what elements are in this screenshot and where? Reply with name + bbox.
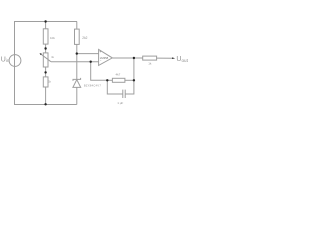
svg-text:+: + <box>99 50 101 54</box>
wire R6 bottom lead <box>45 87 47 105</box>
svg-text:1 µF: 1 µF <box>117 101 123 105</box>
zener diode D1 triangle <box>73 80 81 88</box>
svg-text:Uin: Uin <box>1 56 10 63</box>
wire R3 top lead <box>76 22 78 30</box>
voltage source U_in <box>9 55 21 67</box>
output arrowhead <box>172 57 175 59</box>
capacitor C1 right plate <box>124 90 126 98</box>
wire feedback down from inverting node <box>91 62 108 81</box>
wire R4 to output node column <box>125 79 134 81</box>
wire cap branch left <box>107 80 123 94</box>
wire zener anode to bottom rail <box>76 87 78 104</box>
svg-text:1k: 1k <box>51 55 54 59</box>
svg-text:1k: 1k <box>148 62 152 66</box>
node top rail / R1 <box>44 20 46 22</box>
wire R3 to zener <box>76 44 78 79</box>
wire pot to R6 <box>45 67 47 77</box>
wire wiper to op-amp inverting input <box>51 61 99 63</box>
potentiometer arrowhead <box>40 53 42 55</box>
potentiometer R2 body <box>43 53 48 67</box>
wire R5 to output terminal <box>157 57 173 59</box>
wire R1 to potentiometer <box>45 44 47 53</box>
svg-text:4k7: 4k7 <box>116 73 121 77</box>
wire cap branch right <box>125 80 134 94</box>
zener diode D1 cathode bar <box>73 78 81 81</box>
node inverting input / feedback <box>90 61 92 63</box>
op-amp U1 <box>99 49 113 65</box>
wire bottom rail <box>14 104 77 106</box>
node R1 / pot <box>44 47 46 49</box>
resistor R6 <box>43 77 48 87</box>
capacitor C1 left plate <box>122 90 124 98</box>
wire left column upper <box>14 21 16 67</box>
resistor R1 <box>43 29 48 44</box>
wire left column lower <box>14 55 16 106</box>
svg-text:2k2: 2k2 <box>82 36 87 40</box>
wire top rail <box>14 21 77 23</box>
wire output node down <box>133 58 135 80</box>
svg-text:10k: 10k <box>50 36 55 40</box>
node output <box>133 57 135 59</box>
resistor R5 <box>143 56 157 60</box>
wire zener tap to op-amp non-inverting input <box>77 53 99 55</box>
resistor R4 <box>112 78 125 82</box>
node feedback / cap right <box>133 79 135 81</box>
node pot / R6 <box>44 71 46 73</box>
wire feedback line to R4 <box>107 79 112 81</box>
svg-text:BZX84C4V7: BZX84C4V7 <box>84 84 101 88</box>
node feedback / cap left <box>106 79 108 81</box>
node bottom rail / R6 <box>44 103 46 105</box>
wire R1 top lead <box>45 22 47 29</box>
node zener tap <box>76 52 78 54</box>
svg-text:Uout: Uout <box>176 56 188 63</box>
resistor R3 <box>75 29 80 44</box>
potentiometer wiper arrow <box>41 54 51 62</box>
wire op-amp output <box>112 57 142 59</box>
svg-text:1k: 1k <box>48 79 51 83</box>
